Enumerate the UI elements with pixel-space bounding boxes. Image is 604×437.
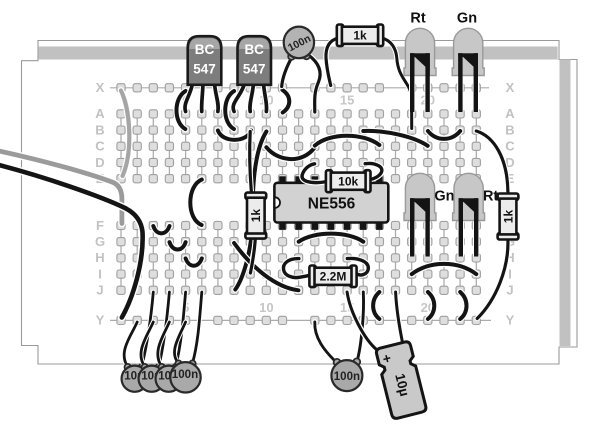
right rail bar: [560, 60, 571, 347]
svg-text:100n: 100n: [334, 371, 360, 383]
column connector strips: [121, 114, 476, 290]
transistor Q2 BC547: [233, 36, 271, 111]
svg-text:C: C: [95, 139, 105, 154]
wire jumper B20-B22: [428, 131, 460, 139]
transistor Q1 BC547: [185, 36, 221, 111]
svg-text:B: B: [95, 122, 104, 137]
svg-text:Gn: Gn: [457, 11, 477, 27]
wire jumper I19-I23: [412, 264, 477, 274]
top rail bar: [39, 47, 558, 60]
wire link B23 to R5 top: [476, 131, 508, 192]
svg-text:I: I: [508, 266, 512, 281]
column number labels: [182, 93, 435, 315]
wire battery plus lead (gray, from left edge): [0, 151, 122, 224]
wire jumper B16-C20: [363, 131, 427, 146]
svg-text:NE556: NE556: [308, 195, 356, 212]
wire jumper C13-C17: [315, 136, 380, 146]
wire gray jumper X1 to E1: [121, 91, 129, 177]
svg-text:H: H: [95, 250, 104, 265]
wire jumper B10-J8: [235, 132, 266, 290]
wire jumper F3-F4: [153, 226, 169, 233]
LED D2 green (top): [452, 28, 484, 112]
svg-text:B: B: [505, 122, 514, 137]
svg-text:100n: 100n: [172, 368, 198, 381]
svg-text:J: J: [96, 283, 103, 298]
row labels left: [95, 80, 105, 328]
row labels right: [505, 80, 515, 328]
svg-text:Rt: Rt: [410, 11, 425, 27]
svg-text:547: 547: [243, 62, 266, 77]
svg-text:A: A: [505, 106, 515, 121]
wire jumper J20-Y20: [428, 292, 434, 319]
Y bus line: [110, 319, 491, 321]
wire jumper X8-B8: [225, 91, 234, 129]
LED D4 red (middle): [453, 173, 485, 256]
svg-text:X: X: [506, 80, 515, 95]
IC U1 NE556: [274, 176, 388, 230]
capacitor C1 100n disc (top): [282, 27, 320, 112]
wire link R5 bottom to Y23: [477, 239, 508, 319]
svg-text:Y: Y: [506, 313, 515, 328]
svg-text:D: D: [95, 155, 104, 170]
svg-text:X: X: [96, 80, 105, 95]
resistor R1 1k (top): [326, 25, 412, 129]
breadboard holes: [117, 84, 481, 325]
X bus line: [110, 87, 489, 89]
wire jumper E6-F6: [190, 180, 202, 226]
svg-text:A: A: [95, 106, 105, 121]
svg-text:547: 547: [193, 62, 216, 77]
svg-text:C: C: [505, 139, 515, 154]
resistor R2 10k: [302, 163, 382, 192]
svg-text:I: I: [98, 266, 102, 281]
svg-text:BC: BC: [195, 42, 215, 57]
capacitor C4 100n disc (bottom left #3): [156, 292, 186, 392]
wire jumper J17-Y17: [373, 292, 379, 319]
wire jumper G8-J12: [234, 243, 298, 290]
resistor R5 1k (right, vertical): [498, 194, 519, 240]
svg-text:10: 10: [259, 300, 273, 315]
capacitor C3 100n disc (bottom left #2): [139, 292, 170, 392]
svg-text:J: J: [506, 283, 513, 298]
svg-text:2.2M: 2.2M: [320, 270, 347, 284]
svg-text:G: G: [95, 234, 105, 249]
svg-text:1k: 1k: [501, 210, 515, 224]
wire jumper X11-A11: [283, 90, 290, 113]
wire jumper G4-G5: [170, 242, 186, 249]
svg-text:Y: Y: [96, 313, 105, 328]
wire battery minus main run: [0, 165, 143, 318]
wire jumper B7-B9: [218, 131, 251, 140]
capacitor C2 100n disc (bottom left #1): [122, 292, 154, 392]
svg-text:1k: 1k: [249, 209, 263, 223]
breadboard outline: [22, 41, 578, 365]
LED D1 red (top): [404, 28, 436, 112]
wire jumper J22-Y22: [460, 292, 466, 319]
svg-text:15: 15: [340, 93, 354, 108]
svg-text:10k: 10k: [338, 175, 358, 189]
svg-text:BC: BC: [244, 42, 264, 57]
svg-text:F: F: [96, 218, 104, 233]
svg-text:1k: 1k: [353, 29, 367, 43]
svg-text:Gn: Gn: [434, 189, 454, 205]
capacitor C6 100n disc (bottom middle): [315, 292, 364, 391]
LED D3 green (middle): [404, 173, 436, 256]
wire jumper X5-B5: [176, 91, 185, 129]
capacitor C5 100n disc (bottom left #4): [170, 292, 202, 392]
svg-text:Rt: Rt: [483, 189, 498, 205]
wire jumper C10-C13: [266, 147, 314, 159]
resistor R4 2.2M: [283, 258, 368, 287]
resistor R3 1k (left of IC, vertical): [245, 132, 266, 274]
wire jumper H5-H6: [186, 258, 202, 265]
wire jumper G12-G16: [299, 234, 364, 242]
capacitor C7 10µ electrolytic: [347, 292, 427, 419]
